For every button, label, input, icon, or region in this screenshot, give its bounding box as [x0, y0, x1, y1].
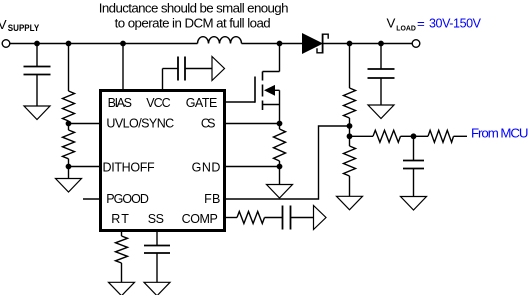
junction R6-C4-R7 — [411, 133, 417, 139]
junction rail-C1 — [34, 41, 40, 47]
wire GND pin to R3 bottom — [224, 166, 280, 168]
junction Q1 source-CS-R3 — [277, 121, 283, 127]
svg-text:CS: CS — [201, 117, 216, 131]
ground below C1 — [24, 106, 50, 120]
svg-text:LOAD: LOAD — [396, 25, 416, 32]
capacitor C2 VCC bypass — [178, 57, 212, 81]
resistor R3 current sense — [274, 124, 286, 167]
resistor R1 UVLO top — [63, 44, 75, 124]
wire diode cathode to VLOAD terminal — [324, 43, 413, 45]
svg-text:DITHOFF: DITHOFF — [103, 161, 156, 175]
resistor R7 to MCU — [414, 130, 468, 142]
resistor R5 FB divider bottom — [344, 136, 356, 196]
svg-text:From MCU: From MCU — [471, 126, 529, 141]
inductor L1 — [198, 37, 242, 44]
node VSUPPLY label — [0, 17, 39, 33]
svg-text:to operate in DCM at full load: to operate in DCM at full load — [115, 15, 271, 30]
resistor R2 UVLO bottom — [63, 124, 75, 167]
ground below R5 — [337, 196, 363, 210]
svg-text:SUPPLY: SUPPLY — [8, 23, 39, 33]
junction rail-R1 — [66, 41, 72, 47]
wire VCC to C2 — [163, 68, 179, 70]
wire top rail from VSUPPLY to inductor — [10, 43, 198, 45]
svg-text:GND: GND — [192, 161, 221, 175]
terminal VLOAD — [412, 40, 420, 48]
junction R2-DITHOFF — [66, 164, 72, 170]
capacitor C6 SS — [144, 231, 170, 282]
wire MCU tap to R6 — [350, 135, 374, 137]
IC U1 controller — [101, 91, 225, 231]
wire between divider taps — [349, 126, 351, 136]
junction rail-FB divider — [347, 41, 353, 47]
junction R1-R2-UVLO — [66, 121, 72, 127]
wire COMP pin to R8 — [224, 217, 237, 219]
transistor Q1 NMOS — [255, 44, 280, 124]
junction rail-BIAS — [120, 41, 126, 47]
svg-text:VCC: VCC — [146, 96, 170, 110]
svg-text:BIAS: BIAS — [108, 96, 132, 110]
svg-text:COMP: COMP — [182, 212, 218, 226]
ground below R3 — [267, 185, 293, 199]
terminal VSUPPLY — [2, 40, 10, 48]
svg-text:UVLO/SYNC: UVLO/SYNC — [106, 117, 174, 131]
svg-text:FB: FB — [204, 192, 220, 206]
ground right of C2 — [212, 57, 225, 81]
svg-text:RT: RT — [111, 212, 129, 226]
wire GATE pin to Q1 gate — [224, 101, 255, 103]
wire inductor to diode anode — [242, 43, 303, 45]
capacitor C1 input — [24, 44, 51, 107]
resistor R9 RT — [116, 231, 128, 282]
svg-text:Inductance should be small eno: Inductance should be small enough — [99, 1, 289, 16]
svg-text:SS: SS — [148, 212, 164, 226]
capacitor C5 COMP — [283, 206, 314, 230]
ground below R2 — [56, 179, 82, 193]
junction MCU tap — [347, 133, 353, 139]
ground below C6 — [144, 282, 170, 295]
svg-text:30V-150V: 30V-150V — [429, 17, 482, 31]
svg-text:PGOOD: PGOOD — [106, 192, 149, 206]
resistor R8 COMP — [237, 212, 283, 224]
svg-text:=: = — [417, 16, 425, 31]
junction rail-Q1 drain — [277, 41, 283, 47]
wire CS pin to Q1 source — [224, 123, 280, 125]
wire VCC pin up — [162, 69, 164, 92]
wire UVLO/SYNC pin — [69, 123, 102, 125]
wire BIAS pin to rail — [122, 44, 124, 92]
junction R3-GND — [277, 164, 283, 170]
ground below C3 — [368, 105, 394, 119]
ground right of C5 — [314, 206, 327, 230]
capacitor C3 output — [368, 44, 395, 106]
svg-text:GATE: GATE — [186, 96, 218, 110]
resistor R6 MCU filter — [373, 130, 414, 142]
svg-text:V: V — [387, 16, 396, 31]
resistor R4 FB divider top — [344, 44, 356, 127]
svg-text:V: V — [0, 17, 7, 32]
wire DITHOFF pin — [69, 166, 102, 168]
note text about inductance — [99, 1, 289, 31]
wire R2 to ground — [68, 167, 70, 179]
junction rail-C3 — [378, 41, 384, 47]
ground below R9 — [109, 282, 135, 295]
wire FB pin to divider — [224, 126, 350, 199]
wire R3 to ground — [279, 167, 281, 185]
capacitor C4 MCU filter — [403, 136, 424, 196]
node VLOAD label — [387, 16, 482, 33]
wire PGOOD stub — [83, 198, 101, 200]
junction FB tap — [347, 123, 353, 129]
diode D1 schottky — [303, 34, 329, 54]
ground below C4 — [401, 197, 427, 211]
